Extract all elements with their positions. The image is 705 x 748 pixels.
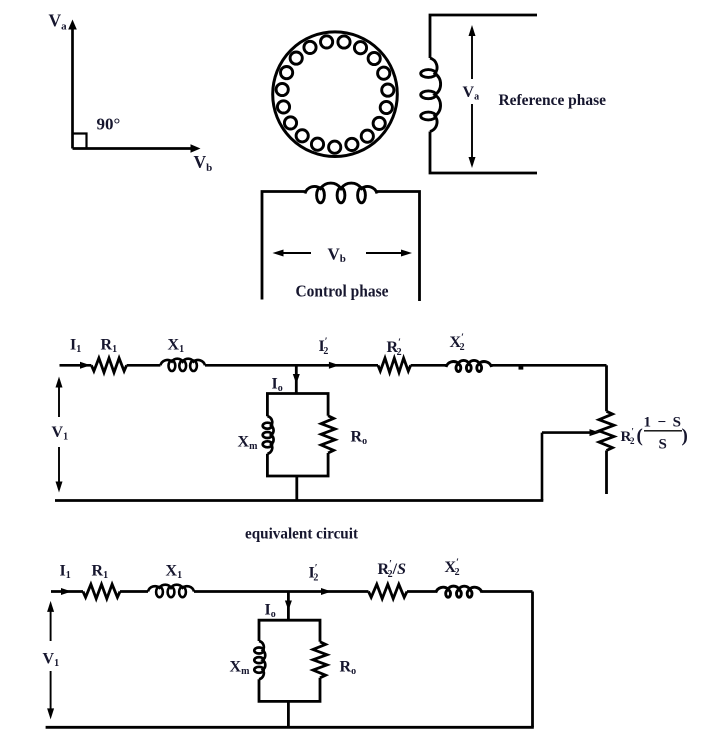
magnetizing box c2 <box>259 620 320 642</box>
phasor Va axis <box>71 27 74 149</box>
svg-text:I′2: I′2 <box>309 563 319 584</box>
wire reference phase frame bottom <box>430 132 537 174</box>
svg-text:equivalent circuit: equivalent circuit <box>245 526 359 543</box>
wire control phase frame <box>262 192 305 300</box>
resistor Ro c1 <box>321 416 335 453</box>
svg-text:Control phase: Control phase <box>296 282 389 301</box>
svg-text:): ) <box>682 426 688 447</box>
inductor X1 c2 <box>148 585 194 592</box>
svg-text:1 − S: 1 − S <box>644 415 682 431</box>
wire box bottom branch c1 <box>295 476 298 501</box>
arrow V1 c1 <box>56 377 63 388</box>
phasor Vb axis <box>73 147 193 150</box>
inductor X2p c1 <box>446 360 492 367</box>
wire box bottom branch c2 <box>287 701 290 727</box>
stator circle <box>273 32 398 157</box>
wire c2 bottom <box>46 726 534 729</box>
resistor R2p c1 <box>378 358 411 372</box>
svg-text:R′2: R′2 <box>621 427 635 446</box>
magnetizing box c1 <box>267 394 328 417</box>
wire Io branch c2 <box>287 592 290 621</box>
svg-text:(: ( <box>637 426 643 447</box>
junction dot <box>519 364 524 370</box>
arrow wiper into R2p(1-S)/S <box>542 431 591 434</box>
wire reference phase frame top <box>430 15 537 58</box>
arrow I2p on wire <box>329 362 340 369</box>
stator slots <box>276 36 394 153</box>
arrow I1 c2 <box>61 588 72 595</box>
svg-text:90°: 90° <box>97 115 121 134</box>
wire c1 wiper drop <box>541 433 544 501</box>
wire c2 right side <box>531 592 534 728</box>
resistor R2p(1-S)/S <box>599 411 614 450</box>
wire c2 top <box>51 590 83 593</box>
wire c1 top <box>60 364 92 367</box>
resistor Ro c2 <box>313 642 327 678</box>
inductor control winding <box>305 183 377 193</box>
arrow V1 c2 <box>47 601 54 612</box>
svg-text:I′2: I′2 <box>319 336 329 357</box>
arrow Vb voltage <box>273 250 284 257</box>
svg-text:X′2: X′2 <box>445 557 460 578</box>
resistor R1 c2 <box>83 584 120 598</box>
resistor R2p/S c2 <box>369 584 408 598</box>
wire c1 right stub <box>605 451 608 495</box>
arrow I1 <box>80 362 91 369</box>
svg-text:R′2/S: R′2/S <box>378 559 407 580</box>
wire c1 bottom <box>55 499 543 502</box>
inductor X2p c2 <box>436 586 482 593</box>
inductor Xm c1 <box>267 416 273 454</box>
arrow I2p c2 <box>321 588 332 595</box>
wire Io branch <box>295 365 298 393</box>
svg-text:S: S <box>659 437 667 453</box>
wire c1 right drop <box>605 365 608 411</box>
inductor X1 <box>160 359 205 366</box>
svg-text:Reference phase: Reference phase <box>499 92 607 109</box>
svg-text:X′2: X′2 <box>450 332 465 353</box>
right-angle marker <box>73 134 87 149</box>
inductor Xm c2 <box>259 641 265 679</box>
svg-text:R′2: R′2 <box>387 337 402 358</box>
inductor reference winding <box>430 58 441 132</box>
arrow Va voltage <box>469 25 476 36</box>
resistor R1 <box>91 358 126 372</box>
